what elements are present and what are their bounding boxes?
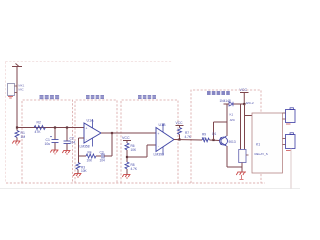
svg-text:10K: 10K [131, 148, 138, 152]
mic ground tick [8, 97, 13, 99]
resistor R7 [178, 128, 182, 135]
block box4 电机驱动 [191, 90, 261, 183]
main wire left [17, 127, 84, 129]
block box1 硬件保护 [22, 100, 73, 183]
resistor R6 [125, 143, 129, 150]
svg-text:U1A: U1A [87, 119, 95, 123]
antenna / mic power bar [12, 64, 22, 67]
svg-text:10K: 10K [87, 159, 94, 163]
ground (C1) [50, 150, 58, 155]
transistor Q1 [220, 137, 228, 145]
junction VCC/diode node [243, 103, 245, 105]
ground (relay) [236, 172, 246, 180]
wire relay to big box [245, 115, 253, 117]
wire node to comparator inverting [127, 156, 147, 158]
svg-text:MIC: MIC [19, 88, 24, 92]
label 电机及控制 [207, 91, 230, 95]
svg-text:1M: 1M [21, 135, 26, 139]
svg-text:10K: 10K [81, 169, 88, 173]
microphone MK1 box [8, 84, 15, 96]
outer dashed box top edge [6, 61, 173, 63]
junction comparator output node [178, 138, 180, 140]
junction C1 node [54, 126, 56, 128]
junction divider node [126, 156, 128, 158]
wire op1 output to comparator [101, 132, 156, 134]
wire vertical from antenna [16, 67, 18, 128]
junction mic/R1 node [16, 126, 18, 128]
junction feedback/output node [111, 132, 113, 134]
svg-text:VCC: VCC [176, 121, 184, 125]
svg-text:R2: R2 [37, 121, 41, 125]
label 电压比较 [138, 95, 156, 99]
collector wire up [226, 122, 228, 136]
relay body K1 [252, 113, 283, 173]
svg-text:K1: K1 [230, 113, 234, 117]
svg-text:K1: K1 [256, 143, 260, 147]
svg-text:JZC: JZC [230, 118, 236, 122]
capacitor C2 [66, 128, 68, 142]
svg-text:Q1: Q1 [212, 132, 216, 136]
op-amp U1A [84, 123, 101, 143]
resistor R1 [16, 128, 18, 131]
junction base/relay branch node [212, 139, 214, 141]
dashed bottom line [6, 182, 265, 184]
svg-text:4.7K: 4.7K [131, 167, 138, 171]
svg-text:U1B: U1B [159, 123, 167, 127]
svg-text:4.7K: 4.7K [185, 135, 192, 139]
label 信号放大 [86, 95, 104, 99]
svg-text:9013: 9013 [229, 140, 236, 144]
svg-text:VCC: VCC [240, 88, 248, 92]
svg-text:R4: R4 [88, 151, 92, 155]
ground (R8) [122, 175, 130, 180]
wire feedback up to output [111, 133, 113, 156]
faint wire from connector B down [290, 149, 292, 189]
wire op1 inverting feedback [79, 137, 85, 139]
svg-text:47K: 47K [35, 130, 42, 134]
junction C2 node [66, 126, 68, 128]
ground (R3) [73, 174, 81, 179]
relay coil box [239, 150, 246, 163]
svg-text:10u: 10u [45, 142, 51, 146]
svg-text:104: 104 [70, 141, 76, 145]
label 硬件保护 [40, 95, 60, 99]
svg-text:+: + [86, 127, 88, 131]
motor connector A [286, 110, 296, 123]
relay coil wires [240, 104, 242, 150]
wire to relay branch [213, 122, 215, 140]
block box3 电压比较 [121, 100, 178, 183]
block box2 信号放大 [75, 100, 117, 183]
svg-text:RELAY_S: RELAY_S [255, 152, 268, 156]
sheet border faint line [0, 188, 300, 190]
comparator U1B [156, 128, 174, 152]
outer dashed box left edge [5, 62, 7, 184]
ground (C2) [62, 151, 70, 156]
capacitor C1 electrolytic [54, 128, 56, 140]
ground (R1) [12, 141, 20, 146]
resistor R8 [125, 162, 129, 169]
motor connector B [286, 135, 296, 149]
emitter wire down [226, 146, 228, 167]
comparator output wire [174, 139, 202, 142]
svg-text:+: + [158, 132, 160, 136]
svg-text:LM358: LM358 [80, 145, 90, 149]
svg-text:-: - [158, 144, 159, 148]
resistor R3 [78, 156, 80, 163]
svg-text:LM393: LM393 [154, 153, 164, 157]
svg-text:104: 104 [100, 159, 106, 163]
svg-text:-: - [86, 137, 87, 141]
svg-text:VCC: VCC [122, 136, 130, 140]
svg-text:JZC-2: JZC-2 [246, 101, 254, 105]
